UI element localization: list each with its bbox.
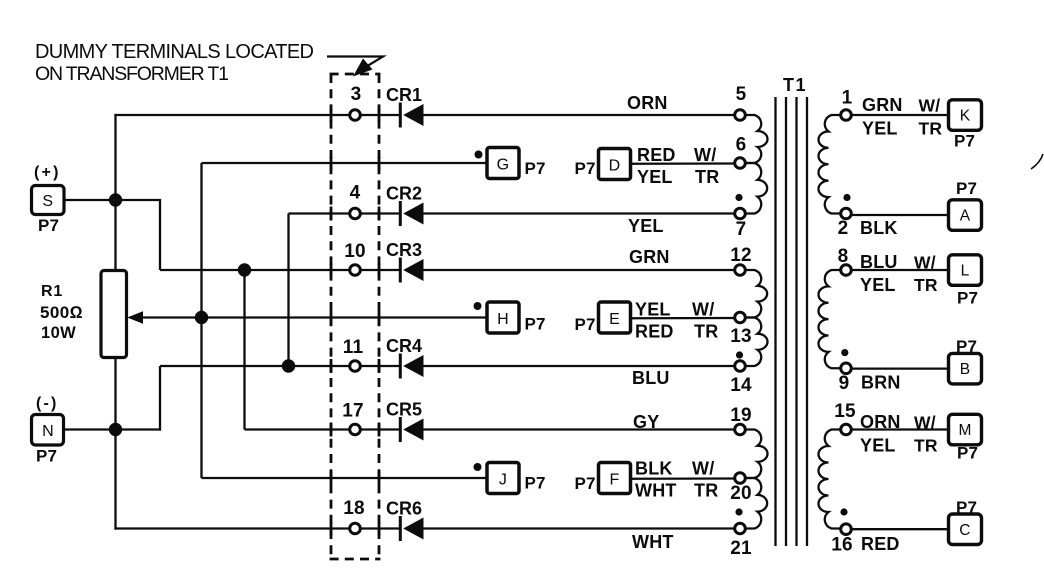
primary winding 20-21 bbox=[745, 478, 767, 528]
leader arrowhead bbox=[353, 59, 373, 77]
connector pin K box bbox=[949, 100, 982, 131]
secondary winding 15-16 bbox=[819, 430, 842, 529]
svg-text:J: J bbox=[499, 472, 507, 489]
R1 wiper arrowhead bbox=[127, 311, 143, 324]
svg-text:D: D bbox=[609, 158, 621, 175]
wire vertical N bus (row-4 to row-11) bbox=[287, 214, 289, 367]
svg-text:TR: TR bbox=[919, 119, 943, 139]
svg-text:P7: P7 bbox=[525, 159, 546, 178]
svg-text:ORN: ORN bbox=[860, 412, 901, 432]
svg-text:M: M bbox=[958, 422, 971, 439]
primary terminal 14 bbox=[735, 361, 746, 372]
wire pin to B bbox=[852, 367, 950, 369]
svg-text:B: B bbox=[960, 361, 971, 378]
connector pin J box bbox=[487, 463, 519, 494]
wire row7 to xfmr bbox=[423, 428, 735, 430]
node S junction bbox=[109, 193, 122, 206]
polarity dot above pin 16 bbox=[840, 508, 847, 515]
svg-text:BLK: BLK bbox=[860, 218, 898, 238]
secondary terminal 15 bbox=[841, 424, 852, 435]
svg-text:WHT: WHT bbox=[632, 532, 674, 552]
svg-text:BLU: BLU bbox=[632, 368, 670, 388]
wire pin to A bbox=[852, 214, 950, 216]
wire row3 to xfmr bbox=[423, 212, 735, 214]
polarity dot above pin 7 bbox=[735, 194, 742, 201]
svg-text:C: C bbox=[959, 522, 970, 539]
svg-text:L: L bbox=[961, 263, 970, 280]
secondary terminal 2 bbox=[841, 208, 852, 219]
svg-text:P7: P7 bbox=[954, 132, 975, 151]
wire row4 mid bbox=[360, 269, 399, 271]
connector pin B box bbox=[949, 353, 982, 384]
secondary terminal 9 bbox=[841, 363, 852, 374]
stray scan mark bbox=[1031, 154, 1043, 169]
wire row7 left bbox=[245, 428, 349, 430]
svg-text:11: 11 bbox=[343, 337, 364, 358]
svg-text:16: 16 bbox=[831, 535, 853, 556]
primary terminal 5 bbox=[735, 110, 746, 121]
svg-text:P7: P7 bbox=[957, 289, 978, 308]
connector pin F box bbox=[599, 463, 631, 494]
svg-text:F: F bbox=[610, 472, 620, 489]
secondary winding 1-2 bbox=[819, 115, 842, 214]
wire row3 mid bbox=[360, 212, 399, 214]
svg-text:BRN: BRN bbox=[861, 373, 901, 393]
svg-text:BLK: BLK bbox=[635, 459, 673, 479]
primary winding 5-6 bbox=[745, 115, 768, 163]
primary terminal 21 bbox=[735, 523, 746, 534]
svg-text:RED: RED bbox=[635, 322, 674, 342]
wire E to xfmr bbox=[631, 317, 734, 320]
polarity dot above pin 21 bbox=[735, 508, 742, 515]
dummy terminal 10 bbox=[350, 265, 361, 276]
svg-text:N: N bbox=[42, 423, 54, 440]
terminal S box bbox=[32, 186, 65, 215]
wire row9 left bbox=[114, 527, 348, 529]
node N junction bbox=[109, 423, 122, 436]
svg-text:9: 9 bbox=[839, 373, 850, 394]
svg-text:14: 14 bbox=[730, 375, 752, 396]
svg-text:TR: TR bbox=[914, 275, 938, 295]
dummy terminal 3 bbox=[350, 110, 361, 121]
polarity dot above pin 14 bbox=[736, 351, 743, 358]
svg-text:(+): (+) bbox=[34, 164, 61, 181]
connector pin H box bbox=[487, 302, 519, 333]
wire row8 to J bbox=[202, 477, 488, 479]
wire pin to K bbox=[852, 114, 950, 116]
svg-text:1: 1 bbox=[842, 88, 853, 109]
wire D to xfmr bbox=[631, 162, 734, 165]
terminal N box bbox=[32, 415, 64, 446]
svg-text:WHT: WHT bbox=[635, 481, 677, 501]
svg-text:12: 12 bbox=[730, 245, 752, 266]
polarity dot above pin 2 bbox=[843, 194, 850, 201]
wire row4 to xfmr bbox=[423, 269, 735, 271]
svg-text:BLU: BLU bbox=[860, 252, 898, 272]
svg-text:W/: W/ bbox=[914, 413, 936, 433]
wire row9 mid bbox=[360, 527, 399, 529]
primary terminal 6 bbox=[735, 158, 746, 169]
svg-text:P7: P7 bbox=[575, 315, 596, 334]
wire row3 left bbox=[289, 212, 349, 214]
svg-text:GY: GY bbox=[633, 412, 659, 432]
svg-text:GRN: GRN bbox=[629, 247, 670, 267]
svg-text:P7: P7 bbox=[956, 498, 977, 517]
svg-text:YEL: YEL bbox=[637, 167, 673, 187]
svg-text:H: H bbox=[497, 311, 509, 328]
svg-text:CR6: CR6 bbox=[386, 499, 422, 519]
svg-text:TR: TR bbox=[914, 436, 938, 456]
svg-text:21: 21 bbox=[730, 538, 752, 559]
wire R1 wiper to H bbox=[140, 316, 487, 318]
svg-text:18: 18 bbox=[343, 498, 365, 519]
wire pin to C bbox=[852, 528, 950, 530]
connector pin C box bbox=[949, 514, 982, 545]
svg-text:6: 6 bbox=[736, 135, 747, 156]
svg-text:S: S bbox=[42, 193, 53, 210]
svg-text:W/: W/ bbox=[692, 459, 714, 479]
svg-text:5: 5 bbox=[736, 84, 747, 105]
svg-text:10W: 10W bbox=[41, 324, 76, 342]
secondary terminal 1 bbox=[841, 110, 852, 121]
wire row7 mid bbox=[360, 428, 399, 430]
svg-text:8: 8 bbox=[838, 246, 849, 267]
resistor R1 body bbox=[101, 271, 127, 358]
connector pin A box bbox=[949, 200, 982, 231]
wire row2 to G bbox=[202, 162, 488, 164]
diode CR5 bbox=[399, 417, 402, 442]
leader line to dashed box bbox=[327, 57, 383, 69]
node dot at J bbox=[474, 463, 482, 471]
svg-text:ORN: ORN bbox=[627, 93, 668, 113]
svg-text:TR: TR bbox=[694, 322, 718, 342]
diode CR1 bbox=[399, 103, 402, 128]
primary terminal 20 bbox=[735, 473, 746, 484]
primary terminal 19 bbox=[735, 424, 746, 435]
primary winding 19-20 bbox=[745, 430, 768, 479]
node wiper junction bbox=[195, 311, 208, 324]
wire row6 mid bbox=[360, 365, 399, 367]
wire top bus (terminal3 corner to R1 top) bbox=[114, 114, 116, 272]
svg-text:W/: W/ bbox=[919, 96, 941, 116]
wire S to bus bbox=[64, 199, 161, 201]
connector pin G box bbox=[487, 148, 519, 179]
connector pin L box bbox=[949, 255, 982, 285]
svg-text:A: A bbox=[960, 208, 971, 225]
svg-text:P7: P7 bbox=[525, 315, 546, 334]
secondary winding 8-9 bbox=[819, 270, 842, 368]
svg-text:YEL: YEL bbox=[628, 216, 664, 236]
primary winding 6-7 bbox=[745, 163, 767, 213]
wire row4 left bbox=[160, 269, 349, 271]
secondary terminal 8 bbox=[841, 265, 852, 276]
svg-text:K: K bbox=[960, 108, 971, 125]
svg-text:ON TRANSFORMER T1: ON TRANSFORMER T1 bbox=[35, 63, 229, 85]
svg-text:4: 4 bbox=[350, 183, 361, 204]
svg-text:P7: P7 bbox=[575, 474, 596, 493]
node junction row-10 bbox=[238, 263, 251, 276]
svg-text:19: 19 bbox=[730, 405, 752, 426]
transformer core bbox=[774, 97, 776, 546]
connector pin M box bbox=[949, 414, 982, 445]
wire N to bus bbox=[65, 428, 162, 430]
svg-text:15: 15 bbox=[834, 401, 856, 422]
svg-text:3: 3 bbox=[351, 84, 362, 105]
primary terminal 7 bbox=[735, 208, 746, 219]
svg-text:W/: W/ bbox=[694, 145, 716, 165]
wire row1 mid bbox=[360, 114, 399, 116]
svg-text:E: E bbox=[609, 311, 620, 328]
wire row1 to xfmr bbox=[423, 114, 735, 116]
svg-text:P7: P7 bbox=[36, 447, 57, 466]
primary winding 12-13 bbox=[745, 270, 767, 317]
svg-text:CR3: CR3 bbox=[386, 240, 422, 260]
diode CR3 bbox=[399, 258, 402, 283]
svg-text:20: 20 bbox=[730, 483, 752, 504]
svg-text:G: G bbox=[497, 157, 510, 174]
svg-text:CR2: CR2 bbox=[386, 184, 422, 204]
polarity dot above pin 9 bbox=[841, 349, 848, 356]
wire R1 bottom to bottom bus bbox=[114, 357, 116, 530]
node dot at H bbox=[474, 302, 482, 310]
svg-text:RED: RED bbox=[637, 145, 676, 165]
svg-text:P7: P7 bbox=[525, 474, 546, 493]
svg-text:P7: P7 bbox=[956, 179, 977, 198]
dashed box bottom edge bbox=[330, 558, 381, 561]
svg-text:P7: P7 bbox=[38, 216, 59, 235]
svg-text:500Ω: 500Ω bbox=[40, 303, 83, 322]
diode CR4 bbox=[399, 354, 402, 379]
wire row9 to xfmr bbox=[423, 527, 735, 529]
svg-text:P7: P7 bbox=[957, 444, 978, 463]
svg-text:CR5: CR5 bbox=[386, 400, 422, 420]
primary terminal 12 bbox=[735, 265, 746, 276]
secondary terminal 16 bbox=[841, 524, 852, 535]
svg-text:TR: TR bbox=[695, 167, 719, 187]
svg-text:W/: W/ bbox=[914, 253, 936, 273]
wire S branch down to row-10 (L shape) bbox=[159, 199, 161, 270]
svg-text:YEL: YEL bbox=[860, 436, 896, 456]
svg-text:YEL: YEL bbox=[862, 119, 898, 139]
svg-text:TR: TR bbox=[694, 481, 718, 501]
dummy terminal 18 bbox=[350, 523, 361, 534]
svg-text:YEL: YEL bbox=[635, 300, 671, 320]
dashed box left edge bbox=[330, 74, 333, 559]
dummy terminal 17 bbox=[350, 424, 361, 435]
dashed-line tick marks at wire crossings bbox=[330, 108, 333, 122]
wire N branch up to row-11 (L shape) bbox=[159, 366, 161, 431]
svg-text:W/: W/ bbox=[692, 300, 714, 320]
dashed box top edge bbox=[330, 73, 381, 76]
svg-text:CR1: CR1 bbox=[386, 85, 422, 105]
svg-text:DUMMY TERMINALS LOCATED: DUMMY TERMINALS LOCATED bbox=[35, 41, 314, 63]
connector pin E box bbox=[599, 302, 631, 333]
svg-text:10: 10 bbox=[344, 241, 366, 262]
wire pin to L bbox=[852, 269, 950, 271]
svg-text:T1: T1 bbox=[783, 75, 807, 95]
primary terminal 13 bbox=[735, 312, 746, 323]
svg-text:(-): (-) bbox=[36, 395, 59, 412]
svg-text:RED: RED bbox=[861, 534, 900, 554]
primary winding 13-14 bbox=[745, 318, 768, 367]
svg-text:17: 17 bbox=[342, 401, 364, 422]
svg-text:P7: P7 bbox=[575, 159, 596, 178]
svg-text:2: 2 bbox=[838, 218, 849, 239]
wire F to xfmr bbox=[631, 477, 734, 480]
svg-text:CR4: CR4 bbox=[386, 336, 422, 356]
dummy terminal 4 bbox=[350, 208, 361, 219]
wire row6 to xfmr bbox=[423, 365, 735, 367]
wire row6 left bbox=[160, 365, 349, 367]
wire row1 left bbox=[114, 114, 348, 116]
node dot at G bbox=[475, 151, 483, 159]
svg-text:R1: R1 bbox=[41, 283, 63, 300]
diode CR6 bbox=[399, 516, 402, 541]
dummy terminal 11 bbox=[350, 361, 361, 372]
wire vertical wiper bus (G row to J row) bbox=[200, 163, 202, 478]
svg-text:7: 7 bbox=[736, 219, 747, 240]
diode CR2 bbox=[399, 201, 402, 226]
svg-text:YEL: YEL bbox=[860, 275, 896, 295]
wire pin to M bbox=[852, 428, 950, 430]
dashed box right edge bbox=[378, 74, 381, 559]
connector pin D box bbox=[599, 149, 631, 180]
svg-text:GRN: GRN bbox=[862, 95, 903, 115]
svg-text:13: 13 bbox=[730, 326, 752, 347]
node junction row-11 bbox=[282, 359, 295, 372]
wire vertical S bus (row-10 to row-17) bbox=[243, 270, 245, 430]
svg-text:P7: P7 bbox=[956, 337, 977, 356]
